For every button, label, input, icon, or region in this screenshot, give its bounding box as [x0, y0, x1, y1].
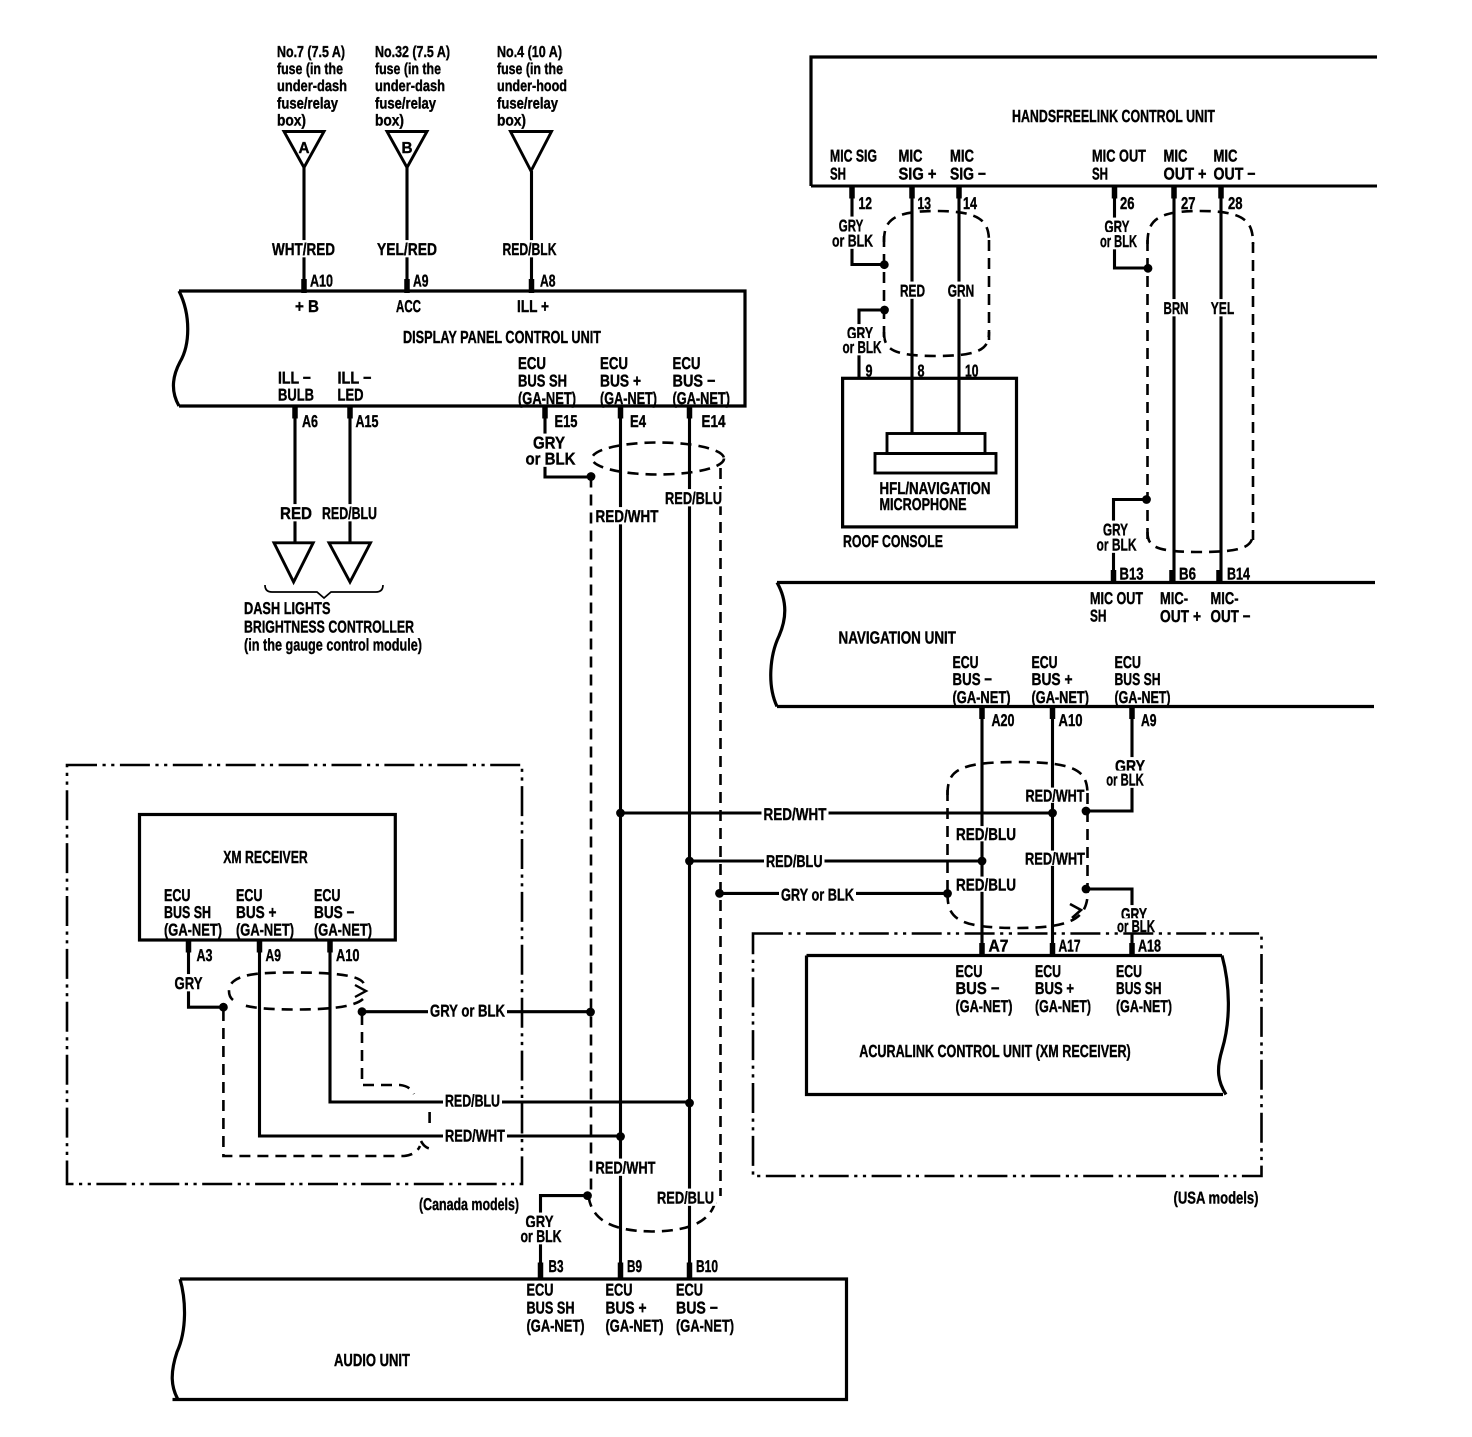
svg-text:RED/WHT: RED/WHT: [764, 805, 827, 824]
wire YEL/RED fuse B to A9: [405, 168, 408, 292]
svg-text:OUT −: OUT −: [1214, 165, 1256, 184]
svg-text:(GA-NET): (GA-NET): [164, 921, 222, 940]
wire GRY or BLK A18 drain: [1086, 889, 1132, 956]
pin A20: [979, 705, 985, 719]
svg-text:B: B: [402, 140, 413, 157]
node E15 drain junction: [587, 472, 596, 481]
label RED/WHT (xm tee): [443, 1127, 507, 1144]
wire GRY A3 drain: [189, 940, 224, 1007]
svg-text:ILL +: ILL +: [517, 297, 549, 316]
node RED/BLU tee on E14: [685, 857, 694, 866]
wire ECU BUS + E4 to B9: [619, 406, 622, 1279]
svg-text:RED/BLU: RED/BLU: [956, 876, 1016, 895]
svg-text:MIC: MIC: [950, 147, 974, 166]
node A3 drain junction: [219, 1003, 228, 1012]
svg-text:(USA models): (USA models): [1174, 1189, 1259, 1208]
svg-text:A9: A9: [1141, 711, 1157, 730]
svg-text:MIC-: MIC-: [1211, 589, 1239, 608]
wire GRY or BLK A9 drain: [1086, 707, 1132, 812]
pin A17: [1050, 943, 1056, 957]
svg-text:A6: A6: [302, 412, 318, 431]
pin B13: [1111, 570, 1117, 584]
svg-text:ROOF CONSOLE: ROOF CONSOLE: [843, 532, 943, 551]
svg-text:SH: SH: [1092, 165, 1108, 184]
svg-text:fuse/relay: fuse/relay: [375, 95, 436, 112]
node pin9 drain junction: [880, 306, 889, 315]
svg-text:No.32 (7.5 A): No.32 (7.5 A): [375, 44, 450, 61]
audio unit box: [173, 1279, 847, 1400]
svg-text:(GA-NET): (GA-NET): [953, 688, 1011, 707]
pin 13: [909, 185, 915, 199]
node shield link right: [943, 889, 952, 898]
svg-text:fuse (in the: fuse (in the: [277, 61, 343, 78]
svg-text:NAVIGATION UNIT: NAVIGATION UNIT: [839, 628, 957, 648]
svg-text:B14: B14: [1227, 565, 1250, 584]
node RED/WHT on A10: [1048, 809, 1057, 818]
pin E14: [687, 405, 693, 419]
svg-text:BUS +: BUS +: [236, 903, 277, 922]
svg-text:BUS SH: BUS SH: [164, 903, 211, 922]
svg-text:ECU: ECU: [600, 354, 628, 373]
svg-text:(GA-NET): (GA-NET): [673, 389, 731, 408]
dash lights triangle 1: [274, 543, 313, 582]
svg-text:RED/BLU: RED/BLU: [322, 504, 377, 523]
wire GRY or BLK B3 drain: [541, 1196, 588, 1279]
pin A3: [186, 939, 192, 953]
shield ellipse E4/E14: [592, 443, 724, 475]
wire ECU BUS - A10 xm: [330, 940, 690, 1102]
pin B14: [1216, 570, 1222, 584]
wire RED pin 13 to microphone: [910, 186, 913, 434]
svg-text:SH: SH: [830, 165, 846, 184]
svg-text:E15: E15: [555, 412, 578, 431]
svg-text:SIG +: SIG +: [899, 165, 937, 184]
wire GRY or BLK E15 shield drain: [545, 406, 590, 477]
shield arrow xm: [355, 985, 366, 997]
svg-text:MICROPHONE: MICROPHONE: [880, 495, 967, 514]
node B13 drain junction: [1142, 495, 1151, 504]
shield drain dashed right: [719, 468, 722, 1196]
svg-text:RED/BLU: RED/BLU: [956, 825, 1016, 844]
label YEL/RED: [375, 240, 439, 257]
label RED/WHT (tee): [762, 805, 829, 822]
label RED/BLU (above tee): [955, 826, 1017, 841]
node bus shield junction (GRY or BLK): [586, 1008, 595, 1017]
svg-text:under-hood: under-hood: [497, 78, 567, 95]
svg-text:DISPLAY PANEL CONTROL UNIT: DISPLAY PANEL CONTROL UNIT: [403, 327, 601, 347]
label GRY or BLK (B13): [1101, 521, 1130, 538]
svg-text:BUS SH: BUS SH: [527, 1299, 575, 1318]
svg-text:RED/WHT: RED/WHT: [1025, 850, 1085, 869]
wire GRY or BLK pin 12 drain: [852, 186, 884, 265]
roof console box: [843, 378, 1017, 527]
svg-text:GRY: GRY: [175, 974, 204, 993]
svg-text:14: 14: [963, 194, 977, 213]
svg-text:ECU: ECU: [518, 354, 546, 373]
svg-text:(GA-NET): (GA-NET): [1115, 688, 1171, 707]
label RED/WHT (below tee): [1024, 851, 1086, 866]
node xm shield junction: [358, 1007, 367, 1016]
svg-text:A7: A7: [989, 937, 1009, 956]
label RED/BLU (below tee): [955, 877, 1017, 892]
svg-text:BUS −: BUS −: [673, 372, 716, 391]
svg-text:RED/BLU: RED/BLU: [657, 1189, 714, 1208]
svg-text:or BLK: or BLK: [521, 1227, 563, 1246]
shield around xm pair: [229, 973, 364, 1010]
label GRY or BLK (xm): [428, 1002, 507, 1019]
pin B3: [538, 1263, 544, 1280]
fuse No.4 symbol: [511, 132, 552, 172]
svg-text:under-dash: under-dash: [375, 78, 445, 95]
pin A6: [292, 405, 298, 419]
svg-text:BUS −: BUS −: [676, 1299, 718, 1318]
wire ECU BUS - E14 to B10: [688, 406, 691, 1279]
pin A9 (nav): [1129, 705, 1135, 719]
label GRY or BLK (pin 26): [1103, 218, 1132, 235]
svg-text:MIC: MIC: [1214, 147, 1238, 166]
svg-text:SIG −: SIG −: [950, 165, 986, 184]
handsfreelink control unit box: [811, 57, 1377, 186]
wire ECU BUS - A20 to A7: [980, 707, 983, 956]
svg-text:or BLK: or BLK: [843, 338, 882, 357]
label RED/BLK: [501, 240, 559, 257]
svg-text:+ B: + B: [295, 297, 319, 316]
wire WHT/RED fuse A to A10: [302, 168, 305, 292]
svg-text:box): box): [277, 112, 306, 129]
svg-text:BUS SH: BUS SH: [518, 372, 567, 391]
wire GRN pin 14 to microphone: [957, 186, 960, 434]
label RED: [898, 282, 927, 299]
svg-text:MIC OUT: MIC OUT: [1090, 589, 1143, 608]
pin A10 (xm): [327, 939, 333, 953]
label RED/WHT on E4: [594, 507, 661, 524]
pin A8: [529, 279, 535, 293]
Canada models border: [67, 765, 522, 1184]
svg-text:E14: E14: [702, 412, 726, 431]
wire GRY or BLK shield link: [720, 892, 948, 895]
pin B10: [687, 1263, 693, 1280]
label GRY or BLK (shield link): [779, 886, 856, 903]
pin 12: [849, 185, 855, 199]
svg-text:ECU: ECU: [676, 1281, 703, 1300]
svg-text:YEL/RED: YEL/RED: [377, 240, 437, 259]
svg-text:E4: E4: [630, 412, 646, 431]
svg-text:(GA-NET): (GA-NET): [600, 389, 657, 408]
svg-text:OUT +: OUT +: [1164, 165, 1207, 184]
svg-text:BUS SH: BUS SH: [1115, 670, 1161, 689]
pin E4: [618, 405, 624, 419]
svg-text:A20: A20: [992, 711, 1015, 730]
svg-text:B3: B3: [549, 1257, 564, 1276]
svg-text:OUT −: OUT −: [1211, 607, 1251, 626]
svg-text:A3: A3: [197, 946, 213, 965]
xm drain dashed down: [223, 1010, 420, 1156]
pin A7: [979, 943, 985, 957]
wire ECU BUS + A9 xm: [260, 940, 621, 1136]
svg-text:ACURALINK CONTROL UNIT (XM REC: ACURALINK CONTROL UNIT (XM RECEIVER): [859, 1041, 1131, 1061]
svg-text:(GA-NET): (GA-NET): [236, 921, 294, 940]
label RED/BLU: [320, 504, 379, 521]
svg-text:HANDSFREELINK CONTROL UNIT: HANDSFREELINK CONTROL UNIT: [1012, 106, 1215, 126]
svg-text:GRY or BLK: GRY or BLK: [430, 1002, 506, 1021]
shield drain dashed left: [590, 477, 593, 1197]
svg-text:(GA-NET): (GA-NET): [1116, 997, 1172, 1016]
svg-text:A10: A10: [336, 946, 360, 965]
microphone symbol: [887, 434, 985, 454]
node A18 drain junction: [1082, 885, 1091, 894]
pin B9: [618, 1263, 624, 1280]
svg-text:ECU: ECU: [527, 1281, 554, 1300]
node RED/BLU on A20: [978, 857, 987, 866]
USA models border: [753, 934, 1262, 1177]
label GRY or BLK (A9): [1113, 757, 1147, 774]
svg-text:A10: A10: [310, 272, 333, 291]
display panel control unit box: [179, 291, 745, 406]
shield around mic out pair: [1148, 211, 1254, 244]
wire YEL pin 28 to B14: [1219, 186, 1222, 583]
node B3 drain junction: [583, 1191, 592, 1200]
label GRY or BLK (pin 12): [837, 217, 866, 234]
svg-text:(Canada models): (Canada models): [419, 1195, 519, 1214]
svg-text:RED/BLU: RED/BLU: [766, 852, 823, 871]
svg-text:A17: A17: [1059, 937, 1081, 956]
svg-text:BRIGHTNESS CONTROLLER: BRIGHTNESS CONTROLLER: [244, 618, 414, 637]
label RED: [278, 504, 314, 521]
svg-text:box): box): [375, 112, 404, 129]
pin A9 (xm): [257, 939, 263, 953]
svg-text:MIC-: MIC-: [1160, 589, 1188, 608]
svg-text:DASH LIGHTS: DASH LIGHTS: [244, 599, 331, 618]
wire RED/BLU A15 to dash lights: [348, 406, 351, 542]
svg-text:under-dash: under-dash: [277, 78, 347, 95]
svg-text:YEL: YEL: [1211, 299, 1235, 318]
pin 28: [1218, 185, 1224, 199]
svg-text:(GA-NET): (GA-NET): [676, 1317, 734, 1336]
svg-text:LED: LED: [338, 386, 364, 405]
svg-text:or BLK: or BLK: [832, 232, 874, 251]
svg-text:AUDIO UNIT: AUDIO UNIT: [334, 1350, 410, 1370]
svg-text:WHT/RED: WHT/RED: [272, 240, 335, 259]
wire RED/BLU bus tee: [690, 859, 983, 862]
svg-text:GRY or BLK: GRY or BLK: [781, 886, 855, 905]
label RED/BLU on E14: [663, 489, 724, 506]
brace dash lights: [265, 585, 383, 598]
node pin26 drain junction: [1144, 264, 1153, 273]
navigation unit box: [777, 581, 1375, 584]
fuse A symbol: [284, 132, 324, 168]
svg-text:RED/WHT: RED/WHT: [596, 507, 659, 526]
dash lights triangle 2: [329, 543, 371, 582]
svg-text:ACC: ACC: [396, 297, 421, 316]
svg-text:B9: B9: [627, 1257, 642, 1276]
acuralink control unit box: [807, 954, 1223, 957]
svg-text:SH: SH: [1090, 607, 1107, 626]
svg-text:MIC OUT: MIC OUT: [1092, 147, 1146, 166]
pin A10 (nav): [1050, 705, 1056, 719]
shield around nav pair: [948, 762, 1088, 795]
wire ECU BUS + A10 to A17: [1051, 707, 1054, 956]
wire BRN pin 27 to B6: [1172, 186, 1175, 583]
svg-text:(GA-NET): (GA-NET): [606, 1317, 664, 1336]
svg-text:(in the gauge control module): (in the gauge control module): [244, 636, 422, 655]
svg-text:BUS +: BUS +: [1035, 979, 1074, 998]
xm pair shield dashed down: [362, 1014, 414, 1094]
svg-text:BULB: BULB: [278, 386, 314, 405]
label GRY (A3): [173, 974, 205, 991]
label BRN: [1162, 299, 1191, 316]
svg-text:OUT +: OUT +: [1160, 607, 1201, 626]
label WHT/RED: [270, 240, 337, 257]
svg-text:MIC: MIC: [1164, 147, 1188, 166]
svg-text:or BLK: or BLK: [526, 450, 577, 469]
svg-text:BUS +: BUS +: [600, 372, 641, 391]
svg-text:ECU: ECU: [606, 1281, 633, 1300]
svg-text:or BLK: or BLK: [1106, 771, 1144, 790]
svg-text:12: 12: [859, 194, 873, 213]
svg-text:fuse/relay: fuse/relay: [497, 95, 558, 112]
node pin12 drain junction: [880, 260, 889, 269]
pin 27: [1171, 185, 1177, 199]
pin A9: [404, 279, 410, 293]
svg-text:GRN: GRN: [948, 282, 975, 301]
wire RED A6 to dash lights: [293, 406, 296, 542]
node RED/WHT tee on E4: [616, 809, 625, 818]
label RED/WHT (above tee): [1025, 788, 1086, 803]
label GRY or BLK (B3): [524, 1213, 556, 1230]
svg-text:26: 26: [1120, 194, 1135, 213]
wire RED/WHT bus tee: [621, 811, 1053, 814]
label GRY or BLK (pin 9): [845, 324, 875, 341]
svg-text:RED: RED: [900, 282, 925, 301]
label RED/BLU (xm tee): [443, 1092, 502, 1109]
svg-text:A9: A9: [413, 272, 429, 291]
svg-text:BUS −: BUS −: [953, 670, 993, 689]
wire GRY or BLK to pin 9: [859, 310, 885, 378]
svg-text:fuse/relay: fuse/relay: [277, 95, 338, 112]
svg-text:BUS +: BUS +: [606, 1299, 647, 1318]
label GRY or BLK (E15): [531, 434, 567, 451]
wire GRY or BLK to B13: [1114, 500, 1147, 583]
svg-text:RED/WHT: RED/WHT: [445, 1127, 505, 1146]
svg-text:MIC SIG: MIC SIG: [830, 147, 877, 166]
svg-text:(GA-NET): (GA-NET): [1035, 997, 1091, 1016]
svg-text:or BLK: or BLK: [1100, 232, 1137, 251]
svg-text:A: A: [299, 140, 310, 157]
svg-text:A9: A9: [266, 946, 282, 965]
svg-text:or BLK: or BLK: [1097, 536, 1138, 555]
shield funnel to audio unit: [589, 1196, 717, 1232]
pin A18: [1129, 943, 1135, 957]
svg-text:RED/WHT: RED/WHT: [596, 1159, 656, 1178]
svg-text:BUS −: BUS −: [956, 979, 1000, 998]
svg-text:No.7 (7.5 A): No.7 (7.5 A): [277, 44, 345, 61]
pin A15: [347, 405, 353, 419]
wire GRY or BLK xm shield to bus shield: [362, 1010, 590, 1013]
pin E15: [542, 405, 548, 419]
svg-text:RED/BLU: RED/BLU: [445, 1092, 500, 1111]
svg-text:(GA-NET): (GA-NET): [314, 921, 372, 940]
svg-text:MIC: MIC: [899, 147, 923, 166]
svg-text:fuse (in the: fuse (in the: [375, 61, 441, 78]
pin 26: [1112, 185, 1118, 199]
label RED/WHT (B9): [594, 1159, 658, 1176]
label GRN: [946, 282, 977, 299]
svg-text:(GA-NET): (GA-NET): [956, 997, 1013, 1016]
svg-text:RED/BLU: RED/BLU: [665, 489, 722, 508]
svg-text:A15: A15: [356, 412, 379, 431]
node RED/BLU xm tee on E14: [685, 1099, 694, 1108]
svg-text:box): box): [497, 112, 526, 129]
svg-text:XM RECEIVER: XM RECEIVER: [223, 847, 308, 867]
svg-text:BUS −: BUS −: [314, 903, 355, 922]
node shield link left: [715, 889, 724, 898]
svg-text:RED/WHT: RED/WHT: [1026, 787, 1085, 806]
svg-text:B6: B6: [1179, 565, 1196, 584]
svg-text:RED/BLK: RED/BLK: [503, 240, 558, 259]
fuse B symbol: [387, 132, 427, 168]
svg-text:RED: RED: [280, 504, 312, 523]
svg-text:(GA-NET): (GA-NET): [1032, 688, 1090, 707]
label GRY or BLK (A18): [1119, 905, 1149, 922]
svg-text:B10: B10: [696, 1257, 718, 1276]
node RED/WHT xm tee on E4: [616, 1132, 625, 1141]
pin 14: [956, 185, 962, 199]
svg-text:B13: B13: [1120, 565, 1144, 584]
label RED/BLU (B10): [655, 1189, 716, 1206]
svg-text:A10: A10: [1059, 711, 1083, 730]
XM receiver box: [140, 815, 396, 941]
svg-text:BUS +: BUS +: [1032, 670, 1073, 689]
svg-text:BUS SH: BUS SH: [1116, 979, 1162, 998]
svg-text:A8: A8: [540, 272, 556, 291]
svg-text:A18: A18: [1138, 937, 1161, 956]
wire RED/BLK fuse No.4 to A8: [530, 171, 533, 291]
svg-text:28: 28: [1228, 194, 1243, 213]
pin A10: [301, 279, 307, 293]
pin B6: [1169, 570, 1175, 584]
label RED/BLU (tee): [764, 852, 825, 869]
svg-text:fuse (in the: fuse (in the: [497, 61, 563, 78]
label YEL: [1209, 299, 1237, 316]
svg-text:No.4 (10 A): No.4 (10 A): [497, 44, 562, 61]
svg-text:ECU: ECU: [673, 354, 701, 373]
node A9 drain junction: [1082, 807, 1091, 816]
svg-text:(GA-NET): (GA-NET): [527, 1317, 585, 1336]
shield around mic sig pair: [884, 211, 989, 242]
wire GRY or BLK pin 26 drain: [1115, 186, 1149, 268]
svg-text:BRN: BRN: [1164, 299, 1189, 318]
